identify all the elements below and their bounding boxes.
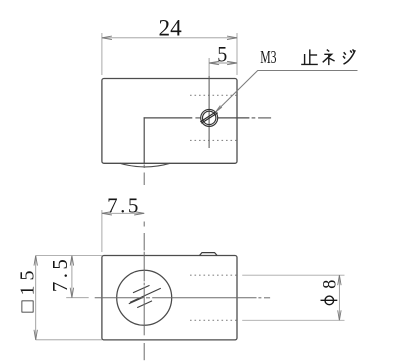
extension line upper for phi8: [242, 274, 344, 276]
hatch line D in circle: [137, 301, 152, 308]
extension line right for 24 and 5: [236, 33, 238, 75]
extension line lower for phi8: [242, 319, 344, 321]
hidden line lower (phi8) front view: [190, 319, 237, 321]
arrow right of 5: [227, 61, 237, 64]
katakana ji: [343, 49, 355, 64]
set screw outer circle M3: [201, 109, 218, 126]
arc (hole break-out) on bottom edge of top view: [120, 163, 170, 167]
extension line left for 7.5: [101, 210, 103, 252]
extension line left for 24: [101, 33, 103, 75]
phi symbol drawn: [325, 296, 334, 305]
vertical center line between views and through front view: [143, 165, 145, 361]
dimension line 5: [209, 62, 237, 64]
svg-text:7.5: 7.5: [48, 256, 72, 292]
step edge horizontal left segment: [144, 117, 193, 119]
svg-text:24: 24: [159, 16, 183, 41]
extension line at circle center level: [66, 297, 89, 299]
arrow down phi8: [338, 310, 341, 320]
dimension line phi8: [338, 275, 340, 320]
dimension line 24: [102, 37, 237, 39]
hatch line A in circle: [133, 285, 150, 292]
horizontal center line of front view: [95, 297, 270, 299]
arrow up phi8: [338, 275, 341, 285]
extension line bottom for 15: [36, 339, 102, 341]
hatch line C in circle: [129, 297, 144, 304]
katakana ne: [323, 50, 335, 66]
set screw vertical center line: [208, 58, 210, 76]
arrow left of 24: [102, 36, 112, 39]
dimension line 15: [35, 256, 37, 340]
arrow right 7.5: [134, 212, 144, 215]
screw slot line 2: [201, 113, 217, 124]
set screw protrusion bump on top edge: [200, 253, 218, 256]
arrow up 7.5v: [70, 256, 73, 266]
svg-text:M3: M3: [260, 47, 276, 67]
leader arrowhead: [215, 106, 222, 113]
hidden line upper (phi8) front view: [190, 274, 237, 276]
top view body outline: [102, 79, 237, 164]
leader line to set screw: [216, 71, 358, 113]
large circle (phi10 optic hole): [117, 270, 172, 325]
step edge (L-shape) vertical: [143, 117, 145, 163]
step edge horizontal right segment, crossing body edge: [218, 117, 250, 119]
arrow down 15: [34, 330, 37, 340]
screw slot line 1: [200, 111, 216, 122]
dimension line 7.5 vertical: [71, 256, 73, 298]
hidden line (phi8 hole) upper, top view: [190, 94, 237, 96]
svg-text:5: 5: [217, 41, 227, 66]
hatch line B in circle: [130, 288, 161, 302]
arrow down 7.5v: [70, 288, 73, 298]
arrow up 15: [34, 256, 37, 266]
svg-text:8: 8: [321, 280, 341, 289]
kanji 止 (tome): [301, 49, 318, 64]
set screw inner circle: [203, 111, 216, 124]
svg-text:□15: □15: [17, 271, 39, 313]
arrow right of 24: [227, 36, 237, 39]
hidden line (phi8 hole) lower, top view: [190, 139, 237, 141]
front view body outline: [102, 256, 237, 340]
extension line top for 15: [36, 255, 102, 257]
arrow left of 5: [209, 61, 219, 64]
svg-text:7.5: 7.5: [107, 194, 141, 218]
center line continuation right of top view (dash dot): [252, 117, 256, 119]
dimension line 7.5: [102, 212, 144, 214]
arrow left 7.5: [102, 212, 112, 215]
center line short dash left of screw: [195, 117, 200, 119]
